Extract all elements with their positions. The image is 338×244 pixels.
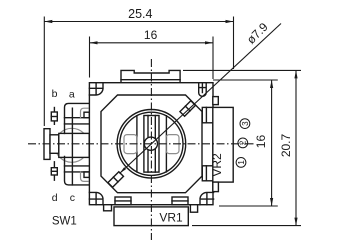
terminal 1 circled (236, 158, 246, 168)
rotor side right (165, 116, 167, 172)
centerline horizontal (28, 143, 256, 145)
dim 16 top line (90, 42, 214, 44)
slot inner right (154, 116, 156, 173)
leader line dia 7.9 (120, 24, 282, 174)
switch SW1 cover bottom line2 (65, 165, 90, 167)
dim 25.4 extension left (43, 17, 45, 127)
switch SW1 pin d lead (53, 162, 55, 180)
ear right (166, 135, 179, 154)
switch SW1 inner box bottom (84, 172, 89, 178)
svg-text:16: 16 (254, 135, 268, 149)
corner lug top-left (89, 83, 103, 95)
dim 25.4 extension right (233, 17, 235, 70)
corner lug bottom-right (200, 192, 214, 204)
potentiometer VR2 body (213, 107, 233, 182)
outer circle (117, 110, 186, 179)
switch SW1 pin b tick (51, 116, 57, 118)
octagon plate (101, 95, 202, 193)
svg-text:1: 1 (237, 160, 246, 165)
clip bottom-left (108, 172, 124, 188)
dim 16 right extension top (213, 79, 278, 81)
switch SW1 cover top line2 (65, 123, 90, 125)
svg-text:c: c (70, 192, 75, 204)
inner circle (120, 112, 183, 175)
terminal 2 circled (238, 138, 248, 148)
dim 20.7 extension bottom (192, 225, 301, 227)
corner rivet top-right (199, 83, 207, 97)
switch SW1 mid block (59, 133, 89, 157)
ear left (124, 135, 137, 154)
foot bottom-left divider (115, 200, 131, 202)
VR2 pin tab upper divider (205, 107, 207, 122)
switch SW1 cover bottom inner line (65, 171, 90, 173)
slot outer (144, 116, 159, 173)
svg-text:SW1: SW1 (52, 216, 77, 228)
pin box below body right (190, 205, 197, 213)
VR2 pin tab lower (202, 166, 213, 181)
switch SW1 pin b (51, 112, 57, 121)
svg-text:25.4: 25.4 (128, 7, 152, 21)
slot inner left (147, 116, 149, 173)
svg-text:VR1: VR1 (159, 211, 183, 225)
svg-text:VR2: VR2 (210, 153, 224, 177)
center shaft circle (144, 137, 157, 150)
VR2 pin box bottom (213, 182, 219, 192)
foot bottom-left (115, 197, 131, 205)
arrow 20.7 top (294, 70, 297, 78)
dim 20.7 line (295, 70, 297, 225)
clip top-right (180, 101, 196, 117)
arrow 25.4 left (44, 20, 52, 23)
svg-text:3: 3 (241, 121, 250, 126)
switch SW1 inner corner gray top (81, 108, 89, 117)
switch SW1 button cap (44, 129, 50, 160)
switch SW1 contact line a-c (71, 108, 73, 185)
dim 16 right line (271, 80, 273, 206)
arrow 20.7 bottom (294, 218, 297, 226)
arrow 25.4 right (226, 20, 234, 23)
dim 16 top extension right (212, 37, 214, 80)
dim 16 right extension bottom (219, 205, 278, 207)
foot bottom-right divider (172, 200, 188, 202)
switch SW1 cover top inner line (65, 117, 90, 119)
svg-text:a: a (69, 88, 75, 100)
switch SW1 pin d (51, 168, 57, 175)
arrow 16 top left (90, 41, 98, 44)
switch SW1 plunger (50, 135, 59, 154)
terminal 3 circled (240, 119, 250, 129)
arrow 16 right bottom (270, 198, 273, 206)
svg-text:16: 16 (144, 28, 158, 42)
pin box below body left (104, 205, 112, 211)
centerline vertical (150, 59, 152, 240)
dim 16 top extension left (89, 37, 91, 78)
top tab (121, 70, 180, 82)
potentiometer VR1 body (114, 207, 188, 226)
switch SW1 inner box top (84, 112, 89, 118)
corner lug bottom-left (89, 192, 103, 204)
svg-text:20.7: 20.7 (279, 133, 293, 157)
body outline (89, 83, 213, 205)
top tab inner line (121, 79, 180, 81)
dim 25.4 line (44, 21, 233, 23)
svg-text:b: b (52, 88, 58, 100)
foot bottom-right (172, 197, 188, 205)
switch SW1 cover bottom (65, 156, 90, 185)
VR2 pin box top (213, 97, 219, 105)
arrow 16 top right (205, 41, 213, 44)
VR2 pin tab lower divider (205, 166, 207, 181)
svg-text:2: 2 (239, 140, 248, 145)
switch SW1 dome contact (55, 128, 89, 162)
arrow 16 right top (270, 80, 273, 88)
switch SW1 inner corner gray bottom (81, 172, 89, 181)
svg-text:d: d (52, 192, 58, 204)
rotor side left (136, 116, 138, 172)
switch SW1 cover top (65, 103, 90, 133)
dim 20.7 extension top (183, 69, 301, 71)
arrow leader dia7.9 (120, 167, 126, 173)
switch SW1 pin d tick (51, 170, 57, 172)
switch SW1 pin b lead (53, 108, 55, 125)
VR2 pin tab upper (202, 107, 213, 122)
